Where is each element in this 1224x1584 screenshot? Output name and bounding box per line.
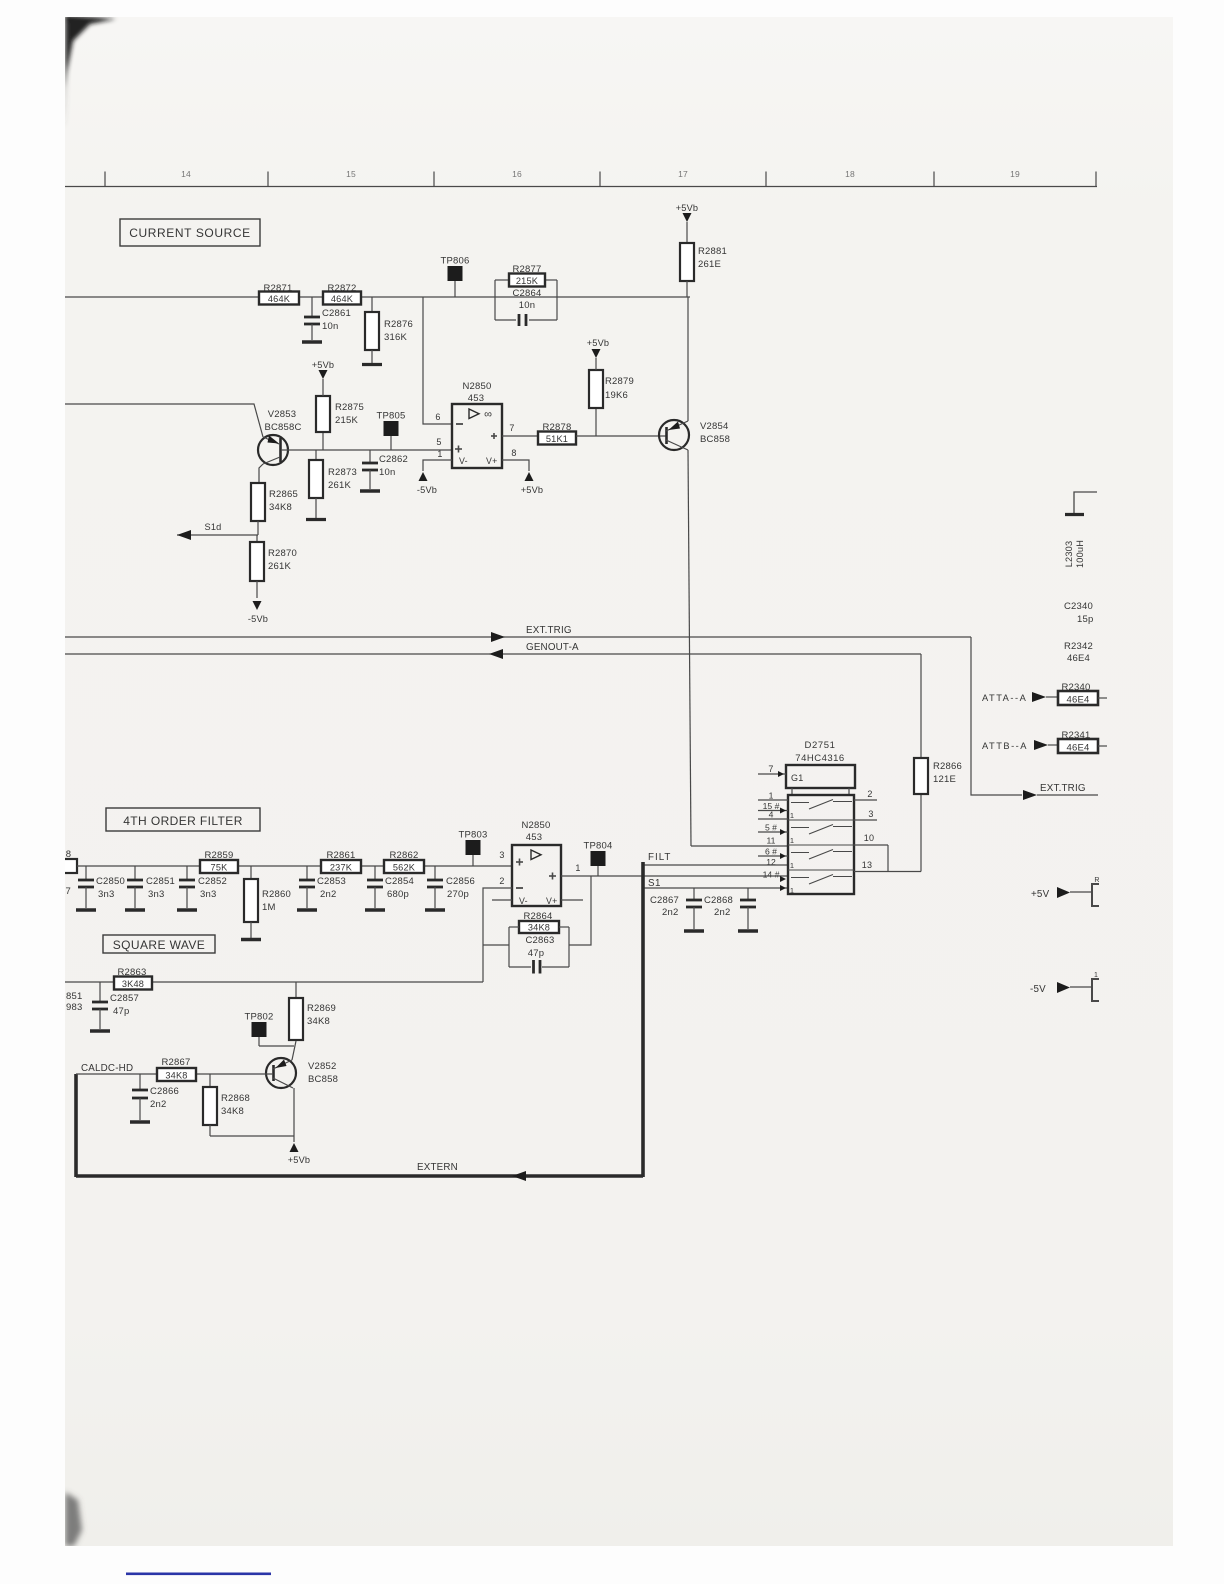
svg-text:464K: 464K: [268, 294, 291, 304]
svg-text:R2881: R2881: [698, 246, 727, 257]
svg-text:CALDC-HD: CALDC-HD: [81, 1063, 133, 1074]
svg-text:74HC4316: 74HC4316: [795, 753, 844, 764]
svg-text:C2340: C2340: [1064, 601, 1093, 612]
svg-text:C2857: C2857: [110, 993, 139, 1004]
svg-text:+5Vb: +5Vb: [312, 360, 335, 370]
svg-text:-5Vb: -5Vb: [248, 614, 268, 624]
svg-text:237K: 237K: [330, 862, 353, 872]
svg-text:261K: 261K: [268, 561, 291, 572]
svg-text:6: 6: [435, 412, 440, 422]
svg-text:SQUARE WAVE: SQUARE WAVE: [113, 938, 205, 952]
svg-text:46E4: 46E4: [1067, 743, 1090, 754]
svg-text:12: 12: [766, 857, 776, 867]
svg-text:BC858: BC858: [308, 1074, 338, 1085]
svg-text:851: 851: [66, 991, 82, 1002]
svg-text:R: R: [1094, 877, 1099, 884]
svg-text:C2852: C2852: [198, 876, 227, 887]
svg-text:C2850: C2850: [96, 876, 125, 887]
svg-text:1: 1: [1094, 972, 1098, 979]
svg-text:-5Vb: -5Vb: [417, 485, 437, 495]
svg-text:TP804: TP804: [584, 841, 613, 852]
svg-text:14 #: 14 #: [763, 870, 780, 880]
svg-text:16: 16: [512, 169, 522, 179]
svg-text:983: 983: [66, 1002, 82, 1013]
svg-text:L2303: L2303: [1064, 541, 1074, 568]
svg-text:EXT.TRIG: EXT.TRIG: [1040, 783, 1086, 794]
svg-text:TP802: TP802: [245, 1012, 274, 1023]
svg-text:GENOUT-A: GENOUT-A: [526, 642, 579, 653]
svg-text:215K: 215K: [335, 415, 358, 426]
svg-text:∞: ∞: [484, 409, 492, 421]
svg-text:CURRENT SOURCE: CURRENT SOURCE: [129, 226, 251, 240]
svg-text:V2852: V2852: [308, 1061, 336, 1072]
svg-text:N2850: N2850: [522, 820, 551, 831]
svg-text:C2868: C2868: [704, 895, 733, 906]
svg-text:316K: 316K: [384, 332, 407, 343]
svg-text:+5Vb: +5Vb: [676, 203, 699, 213]
svg-text:TP805: TP805: [377, 411, 406, 422]
svg-text:13: 13: [862, 860, 872, 870]
svg-text:6 #: 6 #: [765, 847, 777, 857]
svg-text:1: 1: [790, 861, 794, 870]
svg-text:+5V: +5V: [1031, 889, 1050, 900]
svg-text:+5Vb: +5Vb: [288, 1155, 311, 1165]
svg-text:V-: V-: [459, 456, 468, 466]
svg-text:34K8: 34K8: [221, 1106, 244, 1117]
svg-text:R2875: R2875: [335, 402, 364, 413]
svg-text:46E4: 46E4: [1067, 653, 1090, 664]
svg-text:14: 14: [181, 169, 191, 179]
svg-text:S1d: S1d: [205, 522, 222, 532]
svg-text:V2853: V2853: [268, 409, 296, 420]
svg-text:5 #: 5 #: [765, 823, 777, 833]
svg-text:ATTB--A: ATTB--A: [982, 741, 1028, 751]
svg-text:ATTA--A: ATTA--A: [982, 693, 1027, 703]
svg-text:100uH: 100uH: [1075, 540, 1085, 568]
svg-text:34K8: 34K8: [165, 1070, 187, 1080]
svg-text:1: 1: [790, 811, 794, 820]
svg-text:3: 3: [499, 850, 504, 860]
svg-text:C2856: C2856: [446, 876, 475, 887]
svg-text:1: 1: [790, 886, 794, 895]
svg-text:-5V: -5V: [1030, 984, 1046, 995]
svg-text:C2863: C2863: [526, 935, 555, 946]
svg-text:C2861: C2861: [322, 308, 351, 319]
svg-text:1: 1: [437, 449, 442, 459]
svg-text:R2876: R2876: [384, 319, 413, 330]
svg-text:C2866: C2866: [150, 1086, 179, 1097]
svg-text:C2851: C2851: [146, 876, 175, 887]
svg-text:BC858: BC858: [700, 434, 730, 445]
svg-text:7: 7: [509, 423, 514, 433]
svg-text:R2866: R2866: [933, 761, 962, 772]
svg-text:464K: 464K: [331, 294, 354, 304]
svg-text:R2867: R2867: [162, 1057, 191, 1068]
svg-text:261E: 261E: [698, 259, 721, 270]
svg-text:11: 11: [767, 836, 776, 846]
svg-text:3n3: 3n3: [148, 889, 164, 900]
svg-text:D2751: D2751: [805, 740, 836, 751]
svg-text:15p: 15p: [1077, 614, 1093, 625]
svg-text:47p: 47p: [528, 948, 544, 959]
svg-text:4TH ORDER FILTER: 4TH ORDER FILTER: [123, 814, 243, 828]
svg-text:2n2: 2n2: [150, 1099, 166, 1110]
svg-text:562K: 562K: [393, 862, 416, 872]
svg-text:15: 15: [346, 169, 356, 179]
svg-text:2n2: 2n2: [714, 907, 730, 918]
svg-text:10n: 10n: [519, 300, 535, 311]
svg-text:10n: 10n: [322, 321, 338, 332]
svg-text:680p: 680p: [387, 889, 409, 900]
svg-text:N2850: N2850: [463, 381, 492, 392]
svg-text:10: 10: [864, 833, 874, 843]
svg-text:C2867: C2867: [650, 895, 679, 906]
svg-text:121E: 121E: [933, 774, 956, 785]
svg-text:46E4: 46E4: [1067, 695, 1090, 706]
svg-text:10n: 10n: [379, 467, 395, 478]
svg-text:V2854: V2854: [700, 421, 728, 432]
svg-text:5: 5: [436, 437, 441, 447]
svg-text:V+: V+: [546, 896, 557, 906]
svg-text:R2873: R2873: [328, 467, 357, 478]
svg-text:TP806: TP806: [441, 256, 470, 267]
svg-text:34K8: 34K8: [307, 1016, 330, 1027]
svg-text:1: 1: [769, 791, 774, 801]
svg-text:19K6: 19K6: [605, 390, 628, 401]
svg-text:C2853: C2853: [317, 876, 346, 887]
svg-text:1: 1: [575, 863, 580, 873]
svg-text:3n3: 3n3: [200, 889, 216, 900]
svg-text:C2864: C2864: [513, 288, 542, 299]
svg-text:7: 7: [66, 886, 71, 897]
svg-text:453: 453: [468, 393, 484, 404]
svg-text:2n2: 2n2: [320, 889, 336, 900]
svg-text:TP803: TP803: [459, 830, 488, 841]
svg-text:8: 8: [511, 448, 516, 458]
svg-text:19: 19: [1010, 169, 1020, 179]
svg-text:2: 2: [499, 876, 504, 886]
svg-text:S1: S1: [648, 878, 661, 889]
svg-text:18: 18: [845, 169, 855, 179]
svg-text:1M: 1M: [262, 902, 276, 913]
svg-text:47p: 47p: [113, 1006, 129, 1017]
svg-text:75K: 75K: [211, 862, 229, 872]
svg-text:EXTERN: EXTERN: [417, 1162, 458, 1173]
svg-text:+5Vb: +5Vb: [521, 485, 544, 495]
svg-text:V-: V-: [519, 896, 528, 906]
svg-text:EXT.TRIG: EXT.TRIG: [526, 625, 572, 636]
svg-text:215K: 215K: [516, 276, 539, 286]
svg-text:C2854: C2854: [385, 876, 414, 887]
svg-text:V+: V+: [486, 456, 497, 466]
svg-text:3n3: 3n3: [98, 889, 114, 900]
svg-text:R2869: R2869: [307, 1003, 336, 1014]
svg-text:R2342: R2342: [1064, 641, 1093, 652]
svg-text:17: 17: [678, 169, 688, 179]
svg-text:3: 3: [868, 809, 873, 819]
svg-text:C2862: C2862: [379, 454, 408, 465]
svg-text:3K48: 3K48: [122, 979, 144, 989]
svg-text:BC858C: BC858C: [264, 422, 301, 433]
svg-text:261K: 261K: [328, 480, 351, 491]
svg-text:FILT: FILT: [648, 852, 671, 863]
svg-text:453: 453: [526, 832, 542, 843]
svg-text:8: 8: [66, 849, 71, 860]
svg-text:2: 2: [867, 789, 872, 799]
svg-text:R2870: R2870: [268, 548, 297, 559]
svg-text:+5Vb: +5Vb: [587, 338, 610, 348]
svg-text:2n2: 2n2: [662, 907, 678, 918]
svg-text:R2865: R2865: [269, 489, 298, 500]
svg-text:R2879: R2879: [605, 376, 634, 387]
svg-text:34K8: 34K8: [269, 502, 292, 513]
svg-text:R2860: R2860: [262, 889, 291, 900]
svg-text:G1: G1: [791, 773, 803, 783]
svg-text:R2868: R2868: [221, 1093, 250, 1104]
svg-text:7: 7: [768, 764, 773, 774]
svg-text:1: 1: [790, 836, 794, 845]
svg-text:34K8: 34K8: [528, 922, 550, 932]
svg-text:270p: 270p: [447, 889, 469, 900]
svg-text:4: 4: [769, 810, 774, 820]
svg-text:51K1: 51K1: [546, 434, 568, 444]
